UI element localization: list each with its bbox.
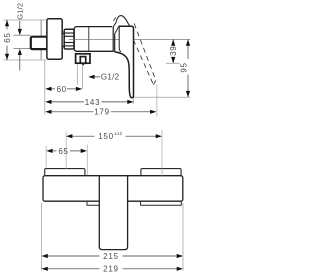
S-union nut (bold) bbox=[31, 37, 47, 49]
wall extension line bbox=[40, 20, 42, 60]
179 right extension line bbox=[156, 85, 158, 117]
lever head diagonal 2 bbox=[113, 22, 117, 28]
G1/2 lower leader line bbox=[19, 54, 21, 71]
G1/2 arrow up bbox=[18, 49, 22, 55]
step ring bbox=[62, 34, 64, 47]
svg-text:95: 95 bbox=[179, 62, 188, 72]
dim 65 dia: bottom extension line bbox=[4, 59, 47, 61]
dim 215 bbox=[47, 255, 100, 257]
outlet flange (bold) bbox=[76, 54, 90, 63]
svg-text:G1/2: G1/2 bbox=[101, 73, 120, 82]
outlet extension lines bbox=[77, 64, 79, 85]
pipe stub lines bbox=[14, 34, 31, 36]
G1/2 top leader line bbox=[19, 21, 21, 30]
lever tip extension line bbox=[134, 96, 190, 98]
svg-text:215: 215 bbox=[103, 252, 118, 261]
svg-text:150: 150 bbox=[98, 132, 113, 141]
dim 39 arrows bbox=[171, 39, 175, 45]
svg-text:39: 39 bbox=[169, 46, 178, 56]
dim 39: dimension line bbox=[172, 39, 174, 44]
dim 65 bottom view bbox=[51, 150, 57, 152]
axis line right segment bbox=[134, 38, 191, 40]
svg-text:143: 143 bbox=[85, 98, 100, 107]
dim 219 bbox=[47, 268, 100, 270]
svg-text:179: 179 bbox=[94, 108, 109, 117]
body front edges (double line) bbox=[112, 27, 114, 52]
dim 143 bbox=[50, 101, 85, 103]
outlet notch bbox=[82, 64, 85, 66]
handle front view bbox=[99, 175, 127, 250]
body axis line bbox=[69, 38, 119, 40]
svg-text:219: 219 bbox=[103, 265, 118, 274]
lever head cap arc bbox=[116, 16, 129, 26]
dim 95 arrows bbox=[186, 39, 190, 45]
dim 150 extension lines bbox=[65, 132, 67, 170]
svg-text:G1/2: G1/2 bbox=[15, 3, 24, 20]
G1/2 outlet label bbox=[88, 75, 94, 79]
dim 65 extension lines bbox=[45, 146, 47, 168]
left escutcheon shelf bbox=[45, 169, 85, 176]
dashed head fragment left bbox=[113, 18, 115, 21]
svg-text:60: 60 bbox=[57, 85, 67, 94]
lever grip outline bbox=[115, 26, 134, 98]
lower outline step left bbox=[87, 201, 100, 206]
dim 215/219 extension lines bbox=[41, 203, 43, 271]
dim 65 dia arrows bbox=[5, 20, 9, 26]
escutcheon side view bbox=[47, 19, 62, 60]
lever head back diagonal bbox=[115, 26, 120, 34]
dimension reference extension line bbox=[44, 61, 46, 115]
svg-text:65: 65 bbox=[3, 32, 12, 42]
right escutcheon shelf bbox=[141, 169, 181, 176]
outlet nipple (bold) bbox=[80, 57, 85, 64]
dim 60 bbox=[50, 88, 56, 90]
body outline bbox=[74, 27, 113, 52]
lever front extension line bbox=[133, 98, 135, 105]
body bar bbox=[43, 176, 183, 202]
union nut ribs bbox=[64, 33, 74, 46]
body internal joint line bbox=[88, 26, 90, 51]
dim 65 dia: top extension line bbox=[4, 19, 47, 21]
dim 95: dimension line bbox=[187, 39, 189, 59]
bar top edge over handle bbox=[99, 175, 129, 177]
dashed open lever tip cap bbox=[154, 80, 156, 85]
dim 65 dia: dimension line bbox=[6, 20, 8, 30]
G1/2 arrow down bbox=[18, 29, 22, 35]
dim 39 bottom extension line bbox=[166, 62, 180, 64]
dashed open lever line B bbox=[134, 40, 154, 85]
lower outline step right bbox=[141, 201, 182, 206]
svg-text:65: 65 bbox=[58, 147, 68, 156]
union nut side view bbox=[64, 29, 74, 49]
dim 150+-12 bbox=[71, 135, 95, 137]
dashed open lever line A bbox=[134, 24, 156, 81]
dim 179 bbox=[50, 111, 94, 113]
svg-text:±12: ±12 bbox=[114, 131, 122, 136]
lever grip left edge bbox=[119, 26, 121, 52]
